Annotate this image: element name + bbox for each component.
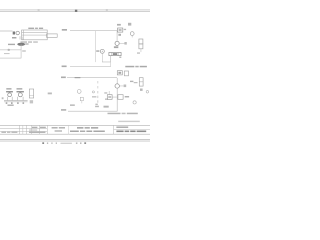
bottom jog horizontal bbox=[102, 61, 111, 64]
comp with stem bbox=[80, 97, 83, 100]
top border center fold tick bbox=[75, 10, 77, 12]
lower rail upper segment bbox=[116, 78, 119, 84]
scattered mark a bbox=[104, 92, 107, 93]
label2 bbox=[17, 88, 23, 90]
caption of top schematic bbox=[125, 66, 134, 68]
pump room elevation: label1 bbox=[6, 88, 11, 90]
cylinder inner line 1 bbox=[22, 31, 48, 34]
rail extension down to return line bbox=[109, 62, 112, 67]
main title text line1 bbox=[77, 127, 83, 129]
text left of gauge2 bbox=[96, 50, 99, 52]
text mid bbox=[48, 93, 52, 95]
right cell text row1 bbox=[116, 127, 128, 128]
relief valve stack lower bbox=[139, 44, 143, 49]
lower rail main segment bbox=[116, 88, 119, 111]
annotation text left of blob bbox=[8, 44, 15, 45]
scattered: small circle bbox=[92, 91, 94, 93]
marks above return line a bbox=[95, 106, 99, 108]
valve cluster divider 2 bbox=[117, 53, 120, 56]
title block top line bbox=[0, 124, 150, 127]
marks above return line b bbox=[104, 106, 109, 108]
valve cluster divider 1 bbox=[111, 53, 114, 56]
marks below reservoir bbox=[30, 100, 33, 103]
cylinder inner left wall bbox=[22, 30, 25, 40]
bottom jog vertical bbox=[109, 56, 112, 63]
stem bbox=[81, 101, 84, 104]
comp A core bbox=[118, 72, 121, 74]
lower return line bbox=[68, 110, 117, 113]
curved mark bbox=[95, 104, 97, 105]
arrow mark bbox=[134, 82, 138, 83]
unit1 circle bbox=[8, 93, 12, 97]
unit1 legs bbox=[6, 97, 9, 101]
valve interior mark bbox=[119, 29, 122, 30]
relief valve stack upper bbox=[139, 39, 143, 44]
title block vertical x31 bbox=[30, 125, 33, 134]
unit1 flange bbox=[6, 91, 13, 92]
lower feed line bbox=[67, 76, 117, 79]
darker overlap on lower feed line bbox=[75, 77, 81, 78]
small mark below-right of cluster bbox=[119, 57, 121, 59]
arrow right of valve4 bbox=[125, 96, 129, 97]
scattered mark b bbox=[105, 99, 108, 100]
fitting blob tail bbox=[25, 43, 28, 44]
unit2 flange bbox=[17, 91, 24, 92]
title block vertical x47 bbox=[46, 125, 49, 134]
text above valve bbox=[117, 24, 121, 26]
gauge2 needle dot bbox=[102, 51, 103, 52]
title block bottom line bbox=[0, 133, 150, 136]
tiny text right of box corner bbox=[22, 50, 26, 51]
title block vertical x26 bbox=[25, 125, 28, 134]
tiny circle far right bbox=[146, 91, 149, 94]
gauge circle right bbox=[130, 32, 134, 36]
title block right row line bbox=[113, 128, 150, 131]
main title text line2 bbox=[70, 131, 79, 133]
lower return label bbox=[61, 109, 66, 111]
gauge2 circle bbox=[100, 49, 104, 53]
text below bbox=[70, 104, 75, 106]
pump2 circle bbox=[115, 84, 119, 88]
annotation text N2 marks bbox=[12, 37, 16, 39]
cylinder detail: eye fitting circle bbox=[16, 31, 19, 34]
valve cluster bbox=[109, 53, 121, 56]
top schematic: label on feed line bbox=[62, 29, 67, 31]
sheet bottom border (double line) bbox=[0, 138, 150, 141]
title block vertical x68 bbox=[67, 125, 70, 134]
mark below stack bbox=[137, 52, 140, 53]
dark fitting blob bbox=[17, 43, 25, 46]
valve3 left of rail bbox=[107, 95, 112, 100]
text under pump bbox=[114, 46, 118, 48]
valve at feed line bbox=[118, 28, 123, 32]
valve3 connector to rail bbox=[112, 96, 117, 99]
mark far left bbox=[2, 97, 4, 99]
title block vertical x19 bbox=[18, 125, 21, 134]
small comp at outlet end bbox=[124, 42, 126, 45]
valve3 stem up bbox=[108, 91, 111, 95]
reservoir internal line bbox=[29, 94, 33, 97]
valve4 right of rail bbox=[118, 95, 123, 100]
tiny text top right bbox=[128, 23, 131, 26]
scale bar marks below border bbox=[42, 142, 44, 144]
title block vertical x39 bbox=[38, 125, 41, 134]
small vertical tick marks bbox=[19, 36, 22, 39]
top border faint tick left bbox=[38, 9, 40, 12]
right cell number row2 bbox=[116, 131, 123, 133]
faint note above title block right bbox=[118, 121, 140, 122]
valve cluster dark core bbox=[113, 53, 117, 55]
title block row line left 1 bbox=[0, 127, 47, 130]
small circle comp bbox=[77, 90, 81, 94]
lower schematic comp B bbox=[124, 71, 128, 76]
left cells text bbox=[1, 132, 6, 133]
sheet top border (double line) bbox=[0, 9, 150, 12]
title block vertical x113 bbox=[112, 125, 115, 134]
top border faint tick right bbox=[106, 9, 108, 12]
gauge stem bbox=[131, 36, 134, 38]
scattered dashes vertical bbox=[97, 81, 100, 83]
vertical capsule valve bbox=[139, 78, 143, 86]
top schematic: mid vertical rail bbox=[94, 31, 97, 62]
marker circle on box top bbox=[8, 49, 10, 51]
lower feed label bbox=[61, 77, 66, 79]
caption below base bbox=[8, 105, 14, 106]
piston rod rectangle bbox=[47, 34, 58, 37]
caption lower schematic bbox=[108, 113, 121, 115]
base rail top bbox=[4, 99, 28, 102]
mark right of valve bbox=[124, 29, 126, 30]
title block vertical x22 bbox=[22, 125, 25, 134]
marks right of pump2 bbox=[130, 81, 133, 82]
mid-left cell text bbox=[52, 127, 58, 128]
tiny mark below capsule bbox=[140, 89, 143, 91]
top schematic: right vertical rail bbox=[116, 31, 119, 41]
cylinder body outline bbox=[22, 30, 48, 40]
unit2 circle bbox=[18, 93, 22, 97]
drain mark below valve bbox=[118, 34, 121, 36]
return line label bbox=[62, 66, 67, 68]
stack stem down bbox=[140, 49, 143, 52]
pump2 outlet bbox=[119, 85, 123, 88]
tiny text inside box bbox=[4, 53, 10, 54]
application box top line bbox=[0, 49, 21, 52]
pump circle on right rail bbox=[115, 41, 119, 45]
cylinder detail: dark clevis block bbox=[13, 32, 15, 35]
lower schematic comp A bbox=[117, 71, 122, 75]
base rail bottom bbox=[4, 101, 28, 104]
application box bottom line bbox=[0, 57, 21, 60]
title block row line left 2 bbox=[0, 130, 47, 133]
annotation text under body row1 bbox=[21, 41, 28, 42]
title of cylinder detail (text) bbox=[28, 28, 34, 29]
cylinder inner line 2 bbox=[22, 34, 48, 37]
reservoir rectangle far left of lower schematic bbox=[29, 89, 33, 98]
gauge2 stem down bbox=[101, 53, 104, 62]
circle below arrows bbox=[133, 101, 136, 104]
capsule divider bbox=[139, 81, 143, 84]
small comp right of pump2 bbox=[124, 85, 127, 88]
return line bbox=[70, 65, 111, 68]
unit2 legs bbox=[16, 97, 19, 101]
cylinder detail: left leader line bbox=[0, 30, 13, 33]
valve3 cross mark bbox=[108, 96, 111, 97]
top schematic: feed line bbox=[70, 29, 117, 32]
feet bbox=[6, 102, 8, 104]
scattered arrow marks bbox=[92, 96, 96, 97]
pump outlet line bbox=[119, 42, 124, 45]
application box right edge / leader vertical bbox=[20, 44, 23, 58]
